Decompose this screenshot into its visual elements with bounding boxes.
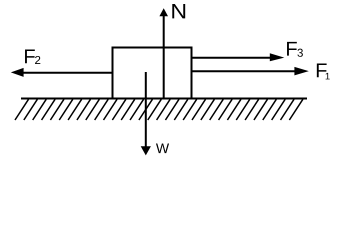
ground hatching bbox=[15, 99, 303, 120]
label w bbox=[156, 143, 169, 153]
label F1 bbox=[317, 63, 327, 77]
label F3 bbox=[287, 42, 297, 56]
force F1 arrow (right lower) bbox=[192, 67, 309, 76]
weight force W arrow bbox=[141, 72, 151, 155]
block (box) bbox=[113, 48, 192, 99]
label F2 bbox=[25, 49, 35, 63]
normal force N arrow bbox=[159, 8, 168, 98]
force F2 arrow (left) bbox=[11, 68, 112, 77]
ground surface line bbox=[21, 98, 307, 100]
label N bbox=[172, 4, 185, 18]
force F3 arrow (right upper) bbox=[192, 53, 285, 61]
